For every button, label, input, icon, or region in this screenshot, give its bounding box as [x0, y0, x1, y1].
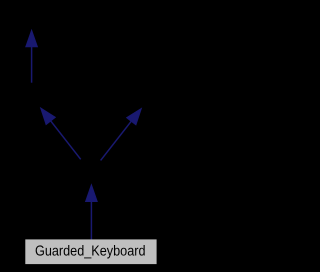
edge arrow diagonal up-left (middle node to left base)	[41, 108, 81, 159]
svg-text:Guarded_Keyboard: Guarded_Keyboard	[35, 243, 146, 259]
node Guarded_Keyboard (selected node box)	[25, 239, 156, 264]
edge arrow from Guarded_Keyboard to middle node (vertical, upward)	[86, 185, 98, 240]
edge arrow to top-left base class (vertical, upward)	[26, 30, 38, 82]
edge arrow diagonal up-right (middle node to right base)	[101, 109, 142, 161]
